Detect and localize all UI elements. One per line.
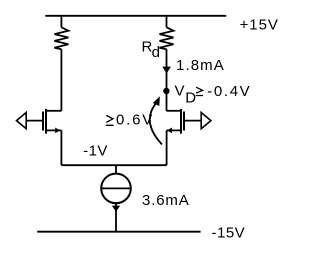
svg-text:-1V: -1V	[83, 143, 107, 160]
svg-text:-15V: -15V	[212, 225, 245, 242]
svg-text:3.6mA: 3.6mA	[142, 192, 189, 209]
svg-text:V: V	[175, 82, 185, 99]
svg-text:-0.4V: -0.4V	[207, 83, 249, 100]
svg-text:D: D	[185, 90, 196, 107]
svg-text:d: d	[152, 44, 160, 61]
svg-text:+15V: +15V	[240, 16, 278, 33]
svg-text:1.8mA: 1.8mA	[176, 57, 224, 74]
svg-text:0.6V: 0.6V	[116, 111, 152, 128]
